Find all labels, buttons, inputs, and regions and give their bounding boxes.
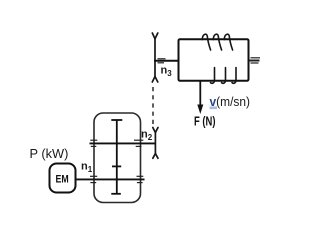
rope windings on top of drum bbox=[202, 34, 232, 50]
gearbox housing bbox=[94, 113, 141, 203]
shaft n2 (gearbox upper/output shaft) bbox=[90, 142, 156, 144]
bearing lower-left of gearbox bbox=[90, 176, 97, 182]
svg-text:P (kW): P (kW) bbox=[30, 146, 69, 161]
belt (dashed line between pulleys) bbox=[152, 87, 154, 126]
pulley n3 (large belt pulley on drum shaft) bbox=[152, 33, 158, 82]
svg-text:F (N): F (N) bbox=[194, 114, 216, 129]
bearing lower-right of gearbox bbox=[137, 176, 144, 182]
label v(m/sn) bbox=[210, 107, 218, 110]
bearing upper-right of gearbox bbox=[134, 140, 143, 146]
pulley n2 (small belt pulley on gearbox output shaft) bbox=[153, 128, 158, 159]
shaft n3 (drum shaft) bbox=[154, 60, 179, 62]
drum (rectangle) bbox=[179, 39, 249, 81]
bearing at right of drum bbox=[249, 58, 260, 63]
gear pair (vertical gear line with caps) bbox=[111, 120, 122, 194]
svg-text:EM: EM bbox=[56, 174, 69, 186]
motor EM (electric motor box) bbox=[50, 164, 76, 193]
rope windings at bottom of drum bbox=[211, 68, 237, 84]
shaft n1 (gearbox lower/input shaft) bbox=[76, 178, 145, 180]
rope with force arrow bbox=[199, 81, 201, 106]
svg-text:v(m/sn): v(m/sn) bbox=[210, 94, 251, 109]
bearing upper-left of gearbox bbox=[90, 140, 97, 146]
bearing at left of drum bbox=[158, 59, 166, 63]
